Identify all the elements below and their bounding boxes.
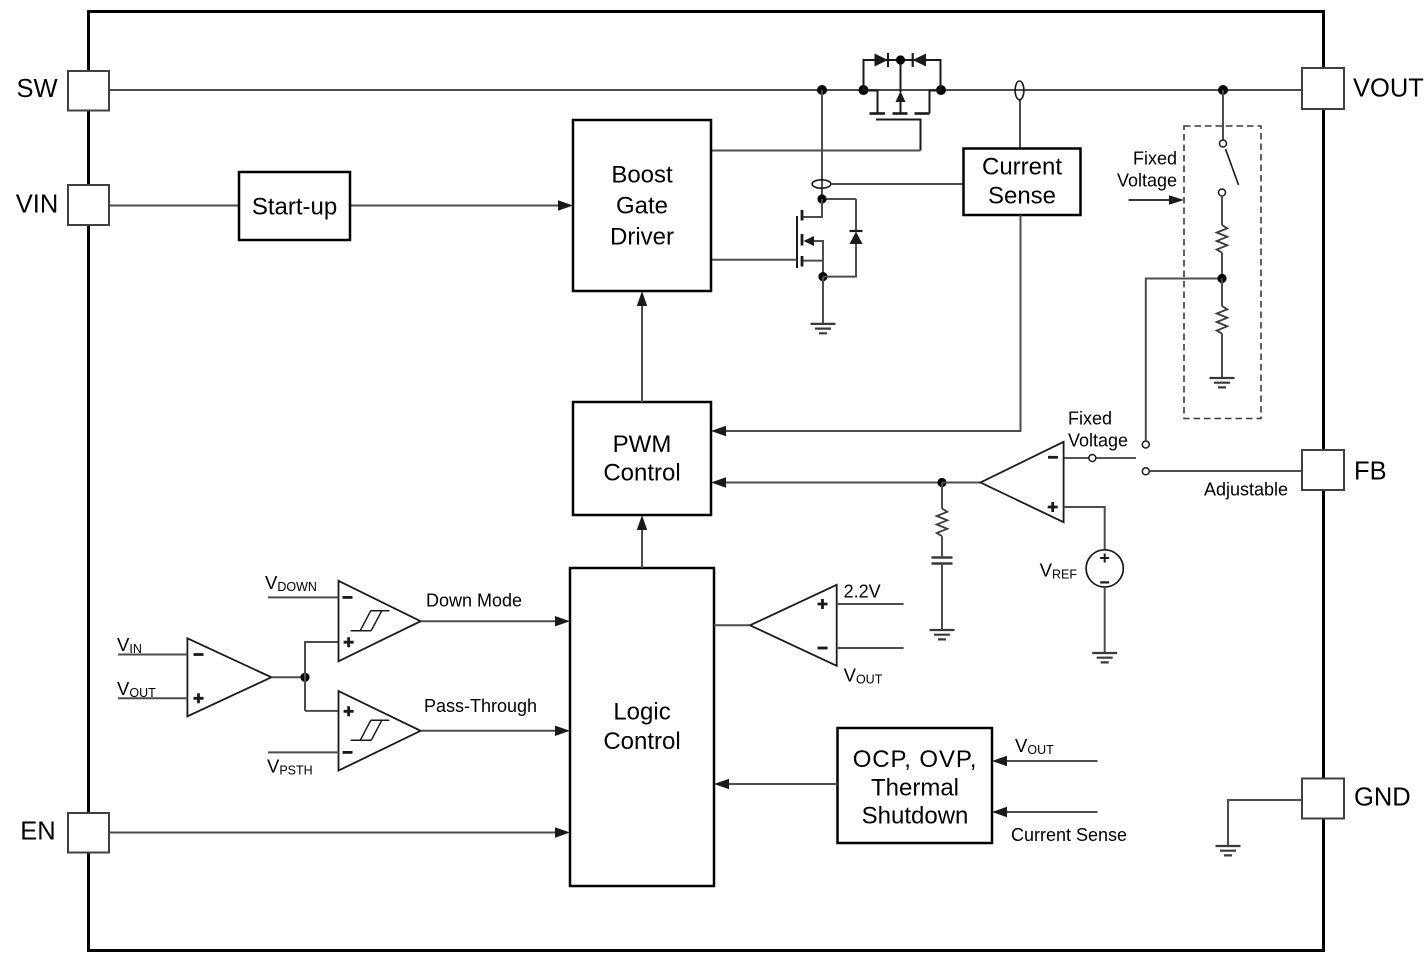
dashed box feedback divider <box>1184 126 1261 419</box>
pin EN <box>68 813 109 853</box>
wire error amp minus input <box>1064 457 1089 459</box>
switch S2 throw Adjustable circle <box>1142 468 1149 475</box>
svg-text:VOUT: VOUT <box>117 678 156 700</box>
node NMOS source <box>818 272 827 281</box>
node diode midpoint <box>896 55 905 64</box>
wire Boost Gate Driver to Q2 gate <box>711 259 797 261</box>
op-amp comparator A (VIN vs VOUT) <box>187 638 271 716</box>
svg-text:VOUT: VOUT <box>1353 75 1424 103</box>
Q1 body arrow <box>896 91 906 102</box>
svg-text:Current: Current <box>982 154 1062 181</box>
svg-text:Voltage: Voltage <box>1117 171 1177 191</box>
node NMOS drain <box>817 194 826 203</box>
svg-text:EN: EN <box>20 818 55 846</box>
svg-text:Adjustable: Adjustable <box>1204 480 1288 500</box>
svg-text:VDOWN: VDOWN <box>265 572 317 594</box>
svg-text:GND: GND <box>1354 784 1411 812</box>
svg-text:Thermal: Thermal <box>871 775 959 802</box>
svg-text:PWM: PWM <box>613 431 672 458</box>
wire Boost Gate Driver to Q1 gate <box>711 150 921 152</box>
block Logic Control <box>570 568 714 886</box>
comparator B hysteresis symbol <box>351 611 390 631</box>
svg-text:Logic: Logic <box>613 699 670 726</box>
block Start-up <box>239 172 350 240</box>
wire VOUT input <box>837 647 904 649</box>
wire SW rail (SW pin to VOUT pin) <box>109 89 1302 91</box>
wire error amp plus input to VREF <box>1064 507 1105 550</box>
pin VOUT <box>1302 68 1344 109</box>
pin SW <box>68 71 109 111</box>
current sense probe ellipse (low side) <box>812 180 831 188</box>
svg-text:VOUT: VOUT <box>844 664 883 686</box>
transistor Q2 (low-side NMOS) <box>803 199 824 277</box>
pin FB <box>1302 450 1344 490</box>
switch S1 bottom terminal <box>1219 189 1226 196</box>
pin GND <box>1302 779 1344 819</box>
wire OCP block to Logic Control <box>727 783 838 785</box>
wire probe to Current Sense block <box>831 183 964 185</box>
resistor R3 (compensation) <box>941 483 943 509</box>
svg-text:Fixed: Fixed <box>1068 409 1112 429</box>
comparator C hysteresis symbol <box>351 720 390 740</box>
pin VIN <box>68 185 109 225</box>
resistor R2 (divider bottom) <box>1221 279 1223 307</box>
svg-text:2.2V: 2.2V <box>844 582 881 602</box>
svg-text:Control: Control <box>603 460 680 487</box>
wire error amp to PWM Control <box>724 482 942 484</box>
wire node to error amp <box>942 482 981 484</box>
svg-text:VREF: VREF <box>1040 560 1078 582</box>
wire VOUT to OCP block <box>1005 760 1098 762</box>
node divider tap <box>1217 274 1226 283</box>
comparator 2.2V <box>750 585 837 666</box>
svg-text:Voltage: Voltage <box>1068 431 1128 451</box>
switch S2 pole circle <box>1089 455 1096 462</box>
svg-text:Sense: Sense <box>988 183 1056 210</box>
diode D3 (Q2 body diode) <box>823 199 863 277</box>
op-amp comparator B (Down Mode, hysteresis) <box>339 581 421 662</box>
wire EN to Logic Control <box>109 832 557 834</box>
svg-text:Current Sense: Current Sense <box>1011 825 1127 845</box>
wire VPSTH input stub <box>268 751 339 753</box>
wire VIN input stub <box>118 654 187 656</box>
node comparator A output <box>300 673 309 682</box>
wire divider tap to throw <box>1146 279 1222 442</box>
block OCP OVP Thermal Shutdown <box>838 728 993 843</box>
ground (VREF) <box>1092 653 1117 662</box>
switch S1 blade <box>1226 149 1239 185</box>
svg-text:VIN: VIN <box>117 634 142 656</box>
voltage source VREF <box>1086 550 1123 587</box>
wire Pass-Through output to Logic Control <box>421 730 557 732</box>
wire Q2 source to ground <box>822 277 824 324</box>
svg-text:Start-up: Start-up <box>252 194 337 221</box>
wire Logic Control to PWM Control <box>641 527 643 568</box>
wire 2.2V reference input <box>837 603 904 605</box>
svg-text:Fixed: Fixed <box>1133 149 1177 169</box>
wire comparator A output <box>271 676 305 678</box>
wire VIN to Start-up <box>109 205 239 207</box>
wire VOUT input stub <box>118 697 187 699</box>
wire Current Sense to PWM Control <box>724 215 1021 431</box>
wire VOUT node into divider <box>1222 90 1224 140</box>
svg-text:Boost: Boost <box>611 162 673 189</box>
node SW-A junction <box>817 85 827 95</box>
wire VREF to ground <box>1104 587 1106 653</box>
node VOUT junction <box>1218 85 1228 95</box>
block Boost Gate Driver <box>573 120 711 291</box>
svg-text:SW: SW <box>16 75 57 103</box>
node SW-B junction <box>859 85 869 95</box>
block Current Sense <box>964 149 1081 216</box>
block PWM Control <box>573 402 711 515</box>
op-amp comparator C (Pass-Through, hysteresis) <box>339 691 421 771</box>
Q2 body arrow <box>804 236 815 246</box>
diode D1 (left, anode left) <box>875 54 889 67</box>
ground (GND pin) <box>1216 846 1241 855</box>
wire SW node to NMOS drain <box>821 90 823 199</box>
wire switch to resistor R1 <box>1221 196 1223 225</box>
wire Current Sense to OCP block <box>1005 811 1098 813</box>
svg-text:VOUT: VOUT <box>1015 735 1054 757</box>
diode D2 (right, anode right) <box>913 54 926 67</box>
wire VDOWN input stub <box>268 596 339 598</box>
svg-text:Driver: Driver <box>610 224 674 251</box>
switch S1 top terminal <box>1220 140 1227 147</box>
svg-text:Pass-Through: Pass-Through <box>424 696 537 716</box>
ground (Q2 source) <box>811 324 836 333</box>
svg-text:FB: FB <box>1354 458 1387 486</box>
arrow Fixed Voltage pointer <box>1129 199 1171 201</box>
svg-text:Down Mode: Down Mode <box>426 591 522 611</box>
wire Start-up to Boost Gate Driver <box>350 205 560 207</box>
svg-text:Shutdown: Shutdown <box>862 803 969 830</box>
svg-text:VIN: VIN <box>16 191 59 219</box>
wire NMOS drain to body diode <box>822 198 856 200</box>
svg-text:Control: Control <box>603 728 680 755</box>
pass transistor Q1 body-diode pair <box>864 60 941 90</box>
svg-text:Gate: Gate <box>616 193 668 220</box>
svg-text:OCP, OVP,: OCP, OVP, <box>853 746 978 773</box>
wire node to comparator inputs <box>305 642 339 711</box>
ground (divider) <box>1210 378 1235 387</box>
op-amp error amplifier <box>981 442 1064 522</box>
node SW-C junction <box>936 85 946 95</box>
wire FB pin to throw <box>1149 470 1302 472</box>
ground (compensation) <box>930 630 955 639</box>
current sense probe ellipse (output) <box>1019 100 1021 149</box>
wire PWM Control to Boost Gate Driver <box>641 303 643 402</box>
wire Down Mode output to Logic Control <box>421 620 557 622</box>
switch S2 throw Fixed Voltage circle <box>1142 441 1149 448</box>
wire GND pin to ground <box>1228 800 1302 846</box>
switch S2 blade <box>1096 457 1136 459</box>
capacitor C1 (compensation) <box>932 558 953 564</box>
svg-text:VPSTH: VPSTH <box>267 756 313 778</box>
wire Logic Control to 2.2V comparator <box>714 624 750 626</box>
transistor Q1 (back-to-back MOSFET switch) <box>864 91 942 151</box>
node compensation junction <box>937 478 946 487</box>
resistor R1 (divider top) <box>1217 225 1228 253</box>
